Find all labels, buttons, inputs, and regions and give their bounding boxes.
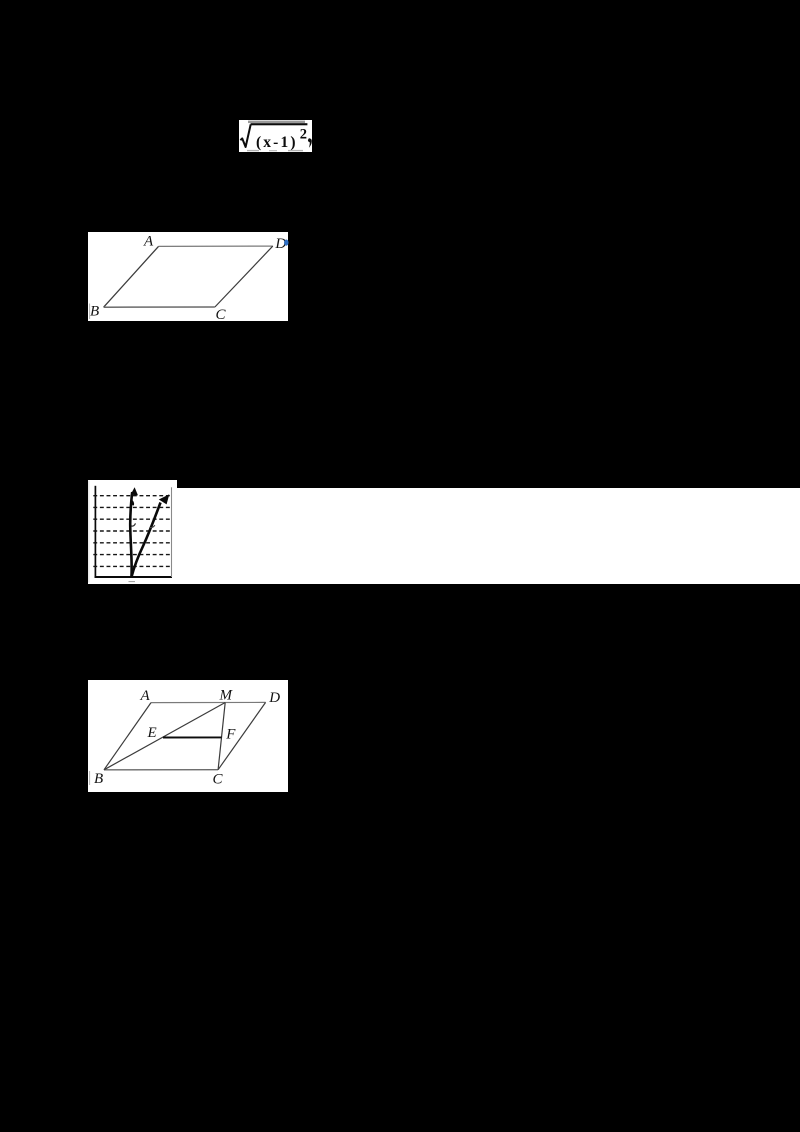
- svg-text:E: E: [147, 725, 157, 741]
- left-edge scan shading: [88, 481, 89, 583]
- formula bottom edge smudges: [247, 150, 259, 151]
- figure 2: time graph image box: [88, 480, 177, 584]
- side AB (left): [104, 246, 159, 307]
- white paragraph band right of graph: [176, 488, 800, 584]
- formula trailing comma: [308, 138, 312, 147]
- side BC (bottom): [104, 769, 218, 771]
- segment EF (bold): [163, 736, 222, 738]
- side AB (left): [104, 703, 151, 770]
- dashed grid lines with axis ticks: [93, 496, 170, 567]
- blue scan dot near D: [284, 240, 288, 246]
- svg-text:A: A: [140, 688, 151, 704]
- formula gray scan bar: [248, 121, 305, 124]
- svg-text:M: M: [219, 688, 234, 704]
- curve 1 arrowhead: [131, 487, 138, 495]
- formula radical sign: [240, 124, 250, 147]
- side AD (top, through M): [151, 701, 266, 703]
- curve 2 arrowhead: [159, 494, 170, 504]
- curve 1 flag blob: [130, 500, 134, 506]
- left-edge scan streak: [89, 771, 90, 785]
- y axis: [94, 486, 96, 578]
- small mark on curve 1: [131, 523, 135, 526]
- curve 1 (steep, left): [130, 492, 132, 577]
- segment MC: [218, 703, 225, 770]
- curve 2 (rising right): [131, 503, 160, 578]
- svg-text:C: C: [213, 772, 224, 788]
- side AD (top): [159, 245, 273, 247]
- x axis (bottom): [95, 576, 173, 578]
- segment MB (diagonal): [104, 703, 225, 770]
- side BC (bottom): [104, 306, 215, 308]
- svg-text:D: D: [268, 690, 280, 706]
- side DC (right): [218, 702, 266, 769]
- formula radical vinculum: [251, 123, 308, 125]
- right border: [171, 487, 173, 577]
- figure 1: parallelogram ABCD image box: [88, 232, 288, 321]
- small mark on curve 2: [149, 525, 155, 527]
- figure 3: parallelogram ABCD with M,E,F image box: [88, 680, 288, 792]
- svg-text:B: B: [94, 771, 103, 787]
- svg-text:F: F: [225, 727, 236, 743]
- left-edge scan streak: [89, 304, 90, 320]
- formula image box sqrt((x-1)^2): [239, 120, 312, 152]
- tick smudge below axis: [129, 581, 136, 582]
- side DC (right): [215, 246, 273, 307]
